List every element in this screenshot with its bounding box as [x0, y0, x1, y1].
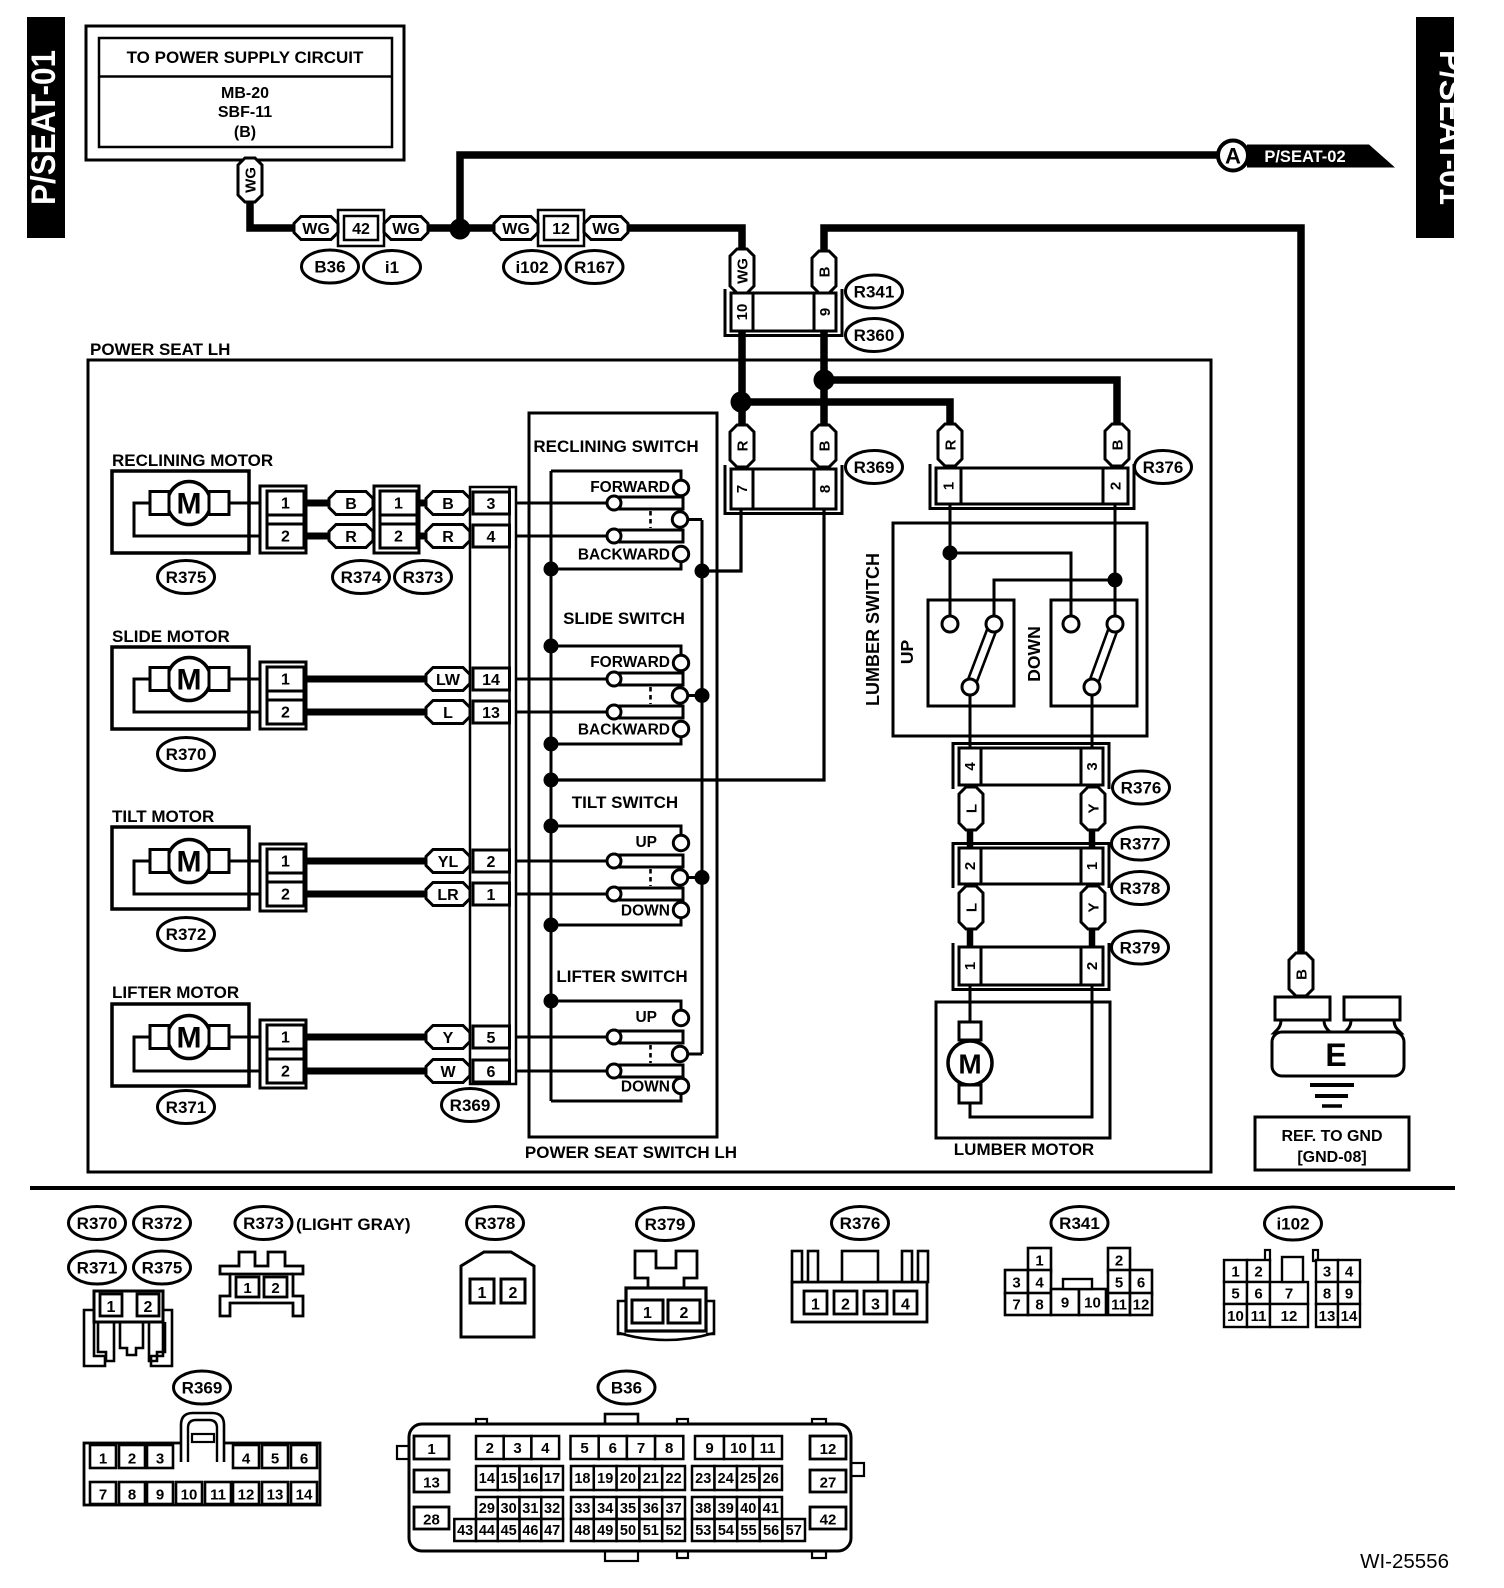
svg-text:M: M — [177, 664, 202, 697]
svg-text:P/SEAT-01: P/SEAT-01 — [1432, 50, 1470, 205]
connector ref R360 — [846, 319, 903, 352]
svg-text:B: B — [345, 496, 357, 513]
svg-text:LIFTER SWITCH: LIFTER SWITCH — [556, 967, 687, 986]
svg-text:R341: R341 — [1059, 1214, 1100, 1233]
node Y label (R377) — [1081, 787, 1105, 830]
wire B motor to R374 — [306, 500, 331, 507]
connector face R376 — [792, 1251, 928, 1322]
svg-text:5: 5 — [271, 1451, 279, 1468]
svg-text:1: 1 — [1231, 1263, 1239, 1280]
svg-text:32: 32 — [544, 1501, 560, 1517]
svg-text:6: 6 — [1254, 1285, 1262, 1302]
svg-text:7: 7 — [99, 1487, 107, 1504]
svg-text:1: 1 — [281, 496, 290, 513]
wire WG segment — [428, 224, 497, 232]
node B label above pin 8 — [812, 425, 836, 467]
svg-text:26: 26 — [763, 1471, 779, 1487]
svg-text:RECLINING SWITCH: RECLINING SWITCH — [533, 437, 698, 456]
svg-text:R167: R167 — [574, 258, 615, 277]
svg-text:14: 14 — [296, 1487, 313, 1504]
svg-text:2: 2 — [281, 705, 290, 722]
lumber switch box — [863, 523, 1147, 736]
connector ref i102 — [504, 251, 561, 284]
svg-text:R369: R369 — [450, 1096, 491, 1115]
svg-text:2: 2 — [281, 887, 290, 904]
svg-text:12: 12 — [820, 1441, 837, 1458]
svg-text:L: L — [963, 804, 980, 813]
connector ref R370 — [158, 738, 215, 771]
svg-text:YL: YL — [438, 854, 459, 871]
svg-text:7: 7 — [1012, 1297, 1020, 1314]
lifter motor R371 — [112, 983, 306, 1088]
svg-text:R360: R360 — [854, 326, 895, 345]
wire stub L — [967, 829, 974, 849]
svg-text:WG: WG — [502, 221, 530, 238]
wire stub Y 2 — [1089, 928, 1096, 948]
svg-text:47: 47 — [544, 1523, 560, 1539]
connector ref R378 — [1112, 872, 1169, 905]
svg-text:8: 8 — [1323, 1285, 1331, 1302]
svg-text:i102: i102 — [515, 258, 548, 277]
svg-text:2: 2 — [487, 854, 496, 871]
node B label above pin 9 — [812, 251, 836, 293]
svg-text:1: 1 — [281, 672, 290, 689]
svg-text:B: B — [1293, 969, 1310, 980]
connector ref i1 — [364, 251, 421, 284]
node L label (R379) — [959, 886, 983, 929]
svg-text:39: 39 — [718, 1501, 734, 1517]
svg-text:M: M — [958, 1049, 981, 1080]
connector R369 switch side strip — [470, 487, 516, 1084]
svg-text:55: 55 — [740, 1523, 756, 1539]
svg-text:M: M — [177, 846, 202, 879]
svg-text:TILT SWITCH: TILT SWITCH — [572, 793, 678, 812]
svg-text:REF. TO GND: REF. TO GND — [1281, 1128, 1382, 1145]
svg-text:12: 12 — [552, 221, 570, 238]
svg-text:2: 2 — [1115, 1253, 1123, 1270]
svg-text:1: 1 — [962, 962, 979, 970]
wire R motor to R374 — [306, 533, 331, 540]
connector face R341 — [1005, 1248, 1152, 1315]
svg-text:49: 49 — [597, 1523, 613, 1539]
svg-text:44: 44 — [479, 1523, 495, 1539]
switch common bus left — [550, 471, 553, 1101]
connector ref B36 — [598, 1371, 655, 1404]
node R label at switch pin 4 — [426, 525, 470, 548]
svg-text:2: 2 — [128, 1451, 136, 1468]
svg-text:38: 38 — [695, 1501, 711, 1517]
connector ref R372 — [158, 918, 215, 951]
svg-text:29: 29 — [479, 1501, 495, 1517]
wire to P/SEAT-02 arrow — [460, 155, 1222, 232]
connector i102-R167 pin 12 inline — [538, 210, 584, 246]
connector face B36 57-pin — [397, 1414, 864, 1561]
svg-text:1: 1 — [1035, 1253, 1043, 1270]
svg-text:B36: B36 — [314, 258, 345, 277]
svg-text:8: 8 — [665, 1440, 673, 1457]
svg-text:5: 5 — [580, 1440, 588, 1457]
svg-text:3: 3 — [1323, 1263, 1331, 1280]
svg-text:36: 36 — [643, 1501, 659, 1517]
svg-text:WG: WG — [392, 221, 420, 238]
svg-text:1: 1 — [941, 482, 958, 490]
connector R379 pins 1/2 — [953, 943, 1109, 990]
svg-text:R376: R376 — [840, 1214, 881, 1233]
svg-text:14: 14 — [1341, 1308, 1358, 1325]
switch common bus right — [701, 520, 704, 1054]
svg-text:R369: R369 — [182, 1379, 223, 1398]
svg-text:1: 1 — [99, 1451, 107, 1468]
svg-text:18: 18 — [574, 1471, 590, 1487]
wire WG to pin 10 — [628, 228, 742, 251]
svg-text:B: B — [816, 266, 833, 277]
svg-text:51: 51 — [643, 1523, 659, 1539]
svg-text:R: R — [345, 529, 357, 546]
svg-text:4: 4 — [962, 762, 979, 771]
reclining switch — [516, 437, 702, 569]
power seat switch LH box — [525, 413, 737, 1162]
svg-text:WG: WG — [302, 221, 330, 238]
svg-text:2: 2 — [509, 1285, 518, 1302]
svg-text:9: 9 — [1061, 1295, 1069, 1312]
svg-text:R377: R377 — [1120, 835, 1161, 854]
svg-text:3: 3 — [1084, 762, 1101, 770]
frame tag P/SEAT-01 left — [25, 17, 65, 238]
svg-text:4: 4 — [487, 529, 496, 546]
node R label R374 — [329, 525, 373, 548]
connector R373 inline — [374, 486, 419, 553]
svg-text:R: R — [734, 440, 751, 451]
svg-text:R: R — [442, 529, 454, 546]
wire stub L 2 — [967, 928, 974, 948]
svg-text:L: L — [963, 903, 980, 912]
node Y label (R379) — [1081, 886, 1105, 929]
svg-text:WG: WG — [592, 221, 620, 238]
svg-text:1: 1 — [643, 1305, 652, 1322]
junction R — [731, 392, 752, 413]
svg-text:40: 40 — [740, 1501, 756, 1517]
connector R377-R378 pins 2/1 — [953, 844, 1109, 889]
connector ref R341 — [1051, 1207, 1108, 1240]
separator line — [30, 1186, 1455, 1190]
lifter switch — [516, 967, 702, 1101]
node B label at switch pin 3 — [426, 492, 470, 515]
svg-text:31: 31 — [522, 1501, 538, 1517]
svg-text:R369: R369 — [854, 458, 895, 477]
svg-text:13: 13 — [267, 1487, 284, 1504]
connector R369 pins 7/8 — [725, 465, 842, 514]
node B label at ground — [1289, 953, 1313, 996]
connector ref R373 — [395, 561, 452, 594]
svg-text:1: 1 — [487, 887, 496, 904]
node L label — [426, 701, 470, 724]
connector ref R376 — [832, 1207, 889, 1240]
svg-text:2: 2 — [281, 1064, 290, 1081]
svg-text:POWER SEAT SWITCH LH: POWER SEAT SWITCH LH — [525, 1143, 737, 1162]
svg-text:R371: R371 — [166, 1098, 207, 1117]
svg-text:4: 4 — [1345, 1263, 1354, 1280]
node WG label left of 12 — [494, 217, 538, 240]
svg-text:41: 41 — [763, 1501, 779, 1517]
svg-text:2: 2 — [144, 1299, 153, 1316]
svg-text:2: 2 — [1108, 482, 1125, 490]
node B label above lumber pin 2 — [1105, 424, 1129, 466]
svg-text:[GND-08]: [GND-08] — [1297, 1149, 1366, 1166]
node WG label right of 12 — [584, 217, 628, 240]
svg-text:P/SEAT-01: P/SEAT-01 — [25, 50, 63, 205]
svg-text:22: 22 — [666, 1471, 682, 1487]
svg-text:14: 14 — [482, 672, 500, 689]
svg-text:1: 1 — [107, 1299, 116, 1316]
wire R R373 to switch — [417, 533, 430, 540]
connector ref R373 — [235, 1207, 292, 1240]
svg-text:9: 9 — [705, 1440, 713, 1457]
svg-text:LR: LR — [437, 887, 459, 904]
svg-text:R378: R378 — [1120, 879, 1161, 898]
svg-text:7: 7 — [734, 485, 751, 493]
wire lumber pin2 to contacts — [994, 504, 1123, 616]
svg-text:MB-20: MB-20 — [221, 85, 269, 102]
connector ref R375 — [134, 1251, 191, 1284]
junction B — [814, 370, 835, 391]
svg-text:(B): (B) — [234, 124, 256, 141]
svg-text:3: 3 — [871, 1297, 880, 1314]
svg-text:3: 3 — [487, 496, 496, 513]
svg-text:5: 5 — [1115, 1275, 1123, 1292]
svg-text:LUMBER MOTOR: LUMBER MOTOR — [954, 1140, 1094, 1159]
svg-text:B: B — [442, 496, 454, 513]
svg-text:42: 42 — [352, 221, 370, 238]
svg-text:BACKWARD: BACKWARD — [578, 547, 670, 564]
svg-text:14: 14 — [479, 1471, 495, 1487]
svg-text:1: 1 — [478, 1285, 487, 1302]
svg-text:7: 7 — [637, 1440, 645, 1457]
connector ref R167 — [566, 251, 623, 284]
connector B36-i1 pin 42 inline — [338, 210, 384, 246]
lumber motor — [936, 985, 1110, 1159]
ref to gnd box — [1255, 1117, 1409, 1170]
svg-text:R370: R370 — [166, 745, 207, 764]
node WG label left of 42 — [294, 217, 338, 240]
svg-text:16: 16 — [522, 1471, 538, 1487]
svg-text:56: 56 — [763, 1523, 779, 1539]
svg-text:20: 20 — [620, 1471, 636, 1487]
svg-text:12: 12 — [1133, 1297, 1150, 1314]
lumber switch UP contact — [897, 600, 1014, 748]
tilt motor R372 — [112, 807, 306, 911]
svg-text:UP: UP — [897, 640, 917, 665]
wire B to ground (top run) — [824, 228, 1301, 956]
wire B branch to R376 pin2 — [824, 380, 1117, 427]
svg-text:UP: UP — [635, 834, 657, 851]
svg-text:8: 8 — [1035, 1297, 1043, 1314]
connector ref R369 strip — [442, 1089, 499, 1122]
svg-text:2: 2 — [486, 1440, 494, 1457]
slide switch — [516, 609, 702, 744]
connector face i102 — [1224, 1250, 1360, 1327]
svg-text:SLIDE SWITCH: SLIDE SWITCH — [563, 609, 685, 628]
svg-text:R379: R379 — [645, 1215, 686, 1234]
svg-text:A: A — [1225, 144, 1241, 169]
node WG label right of 42 — [384, 217, 428, 240]
svg-text:6: 6 — [487, 1064, 496, 1081]
wire pin 7 to right bus — [702, 509, 741, 571]
node B label R374 — [329, 492, 373, 515]
svg-text:13: 13 — [423, 1475, 440, 1492]
svg-text:6: 6 — [609, 1440, 617, 1457]
connector ref i102 — [1265, 1207, 1322, 1240]
svg-text:30: 30 — [501, 1501, 517, 1517]
svg-text:45: 45 — [501, 1523, 517, 1539]
connector ref R376 — [1135, 451, 1192, 484]
connector ref R379 — [1112, 931, 1169, 964]
junction dots right bus — [695, 564, 710, 886]
svg-text:2: 2 — [271, 1280, 279, 1297]
svg-text:19: 19 — [597, 1471, 613, 1487]
node LR label — [426, 883, 470, 906]
svg-text:3: 3 — [156, 1451, 164, 1468]
tilt switch — [516, 793, 702, 925]
svg-text:42: 42 — [820, 1512, 837, 1529]
svg-text:9: 9 — [156, 1487, 164, 1504]
svg-text:W: W — [440, 1064, 456, 1081]
svg-text:SLIDE MOTOR: SLIDE MOTOR — [112, 627, 230, 646]
svg-text:5: 5 — [487, 1030, 496, 1047]
svg-text:10: 10 — [1227, 1308, 1244, 1325]
svg-text:RECLINING MOTOR: RECLINING MOTOR — [112, 451, 273, 470]
svg-text:R376: R376 — [1121, 779, 1162, 798]
svg-text:BACKWARD: BACKWARD — [578, 722, 670, 739]
off-page arrow A P/SEAT-02 — [1218, 141, 1395, 171]
connector face R369 14-pin — [84, 1413, 320, 1505]
connector ref R369 — [174, 1371, 231, 1404]
svg-text:1: 1 — [243, 1280, 251, 1297]
svg-text:46: 46 — [522, 1523, 538, 1539]
svg-text:8: 8 — [128, 1487, 136, 1504]
drawing number WI-25556 — [1360, 1550, 1449, 1573]
svg-text:WG: WG — [734, 258, 751, 284]
wire lumber pin1 to contacts — [943, 504, 1072, 616]
junction dots left bus — [544, 562, 559, 1009]
svg-text:1: 1 — [394, 496, 403, 513]
connector ref R378 — [467, 1207, 524, 1240]
svg-text:DOWN: DOWN — [621, 903, 670, 920]
reclining motor R375 — [112, 451, 306, 553]
node Y label — [426, 1026, 470, 1049]
connector ref B36 — [302, 250, 359, 283]
svg-text:B: B — [1109, 439, 1126, 450]
svg-text:R379: R379 — [1120, 939, 1161, 958]
wire R branch to R376 pin1 — [741, 402, 950, 427]
node R label above pin 7 — [730, 425, 754, 467]
svg-text:R374: R374 — [341, 568, 382, 587]
wire Y lifter motor — [306, 1034, 430, 1041]
junction WG — [450, 219, 471, 240]
connector ref R375 — [158, 561, 215, 594]
svg-text:1: 1 — [281, 854, 290, 871]
node YL label — [426, 850, 470, 873]
connector face R379 — [618, 1251, 714, 1340]
svg-text:B: B — [816, 440, 833, 451]
wire pin 8 to left bus — [551, 509, 824, 780]
svg-text:23: 23 — [695, 1471, 711, 1487]
node WG label — [238, 158, 262, 202]
svg-text:8: 8 — [817, 485, 834, 493]
svg-text:9: 9 — [817, 308, 834, 316]
svg-text:R376: R376 — [1143, 458, 1184, 477]
svg-text:R: R — [942, 439, 959, 450]
svg-text:4: 4 — [901, 1297, 910, 1314]
slide motor R370 — [112, 627, 306, 729]
svg-text:10: 10 — [730, 1440, 747, 1457]
connector ref R370 — [69, 1207, 126, 1240]
svg-text:R373: R373 — [243, 1214, 284, 1233]
svg-text:50: 50 — [620, 1523, 636, 1539]
svg-text:48: 48 — [574, 1523, 590, 1539]
svg-text:25: 25 — [740, 1471, 756, 1487]
svg-text:11: 11 — [210, 1487, 226, 1504]
svg-text:13: 13 — [1319, 1308, 1336, 1325]
svg-text:13: 13 — [482, 705, 500, 722]
svg-text:27: 27 — [820, 1475, 837, 1492]
svg-text:DOWN: DOWN — [621, 1079, 670, 1096]
ground earth symbol — [1310, 1085, 1354, 1106]
node L label (R377) — [959, 787, 983, 830]
svg-text:WI-25556: WI-25556 — [1360, 1550, 1449, 1573]
connector face R378 — [461, 1252, 534, 1337]
svg-text:R372: R372 — [166, 925, 207, 944]
connector R376 pins 4/3 — [953, 744, 1109, 790]
svg-text:M: M — [177, 488, 202, 521]
svg-text:WG: WG — [242, 167, 259, 193]
svg-text:R341: R341 — [854, 283, 895, 302]
svg-text:P/SEAT-02: P/SEAT-02 — [1264, 148, 1345, 166]
svg-text:L: L — [443, 705, 453, 722]
svg-text:UP: UP — [635, 1009, 657, 1026]
svg-text:2: 2 — [281, 529, 290, 546]
svg-text:1: 1 — [1084, 862, 1101, 870]
connector ref R372 — [134, 1207, 191, 1240]
svg-text:POWER SEAT LH: POWER SEAT LH — [90, 340, 230, 359]
svg-text:43: 43 — [457, 1523, 473, 1539]
svg-text:35: 35 — [620, 1501, 636, 1517]
svg-text:1: 1 — [427, 1441, 435, 1458]
svg-text:2: 2 — [680, 1305, 689, 1322]
svg-text:Y: Y — [1085, 902, 1102, 912]
connector R376 pins 1/2 — [930, 464, 1134, 509]
svg-text:12: 12 — [1281, 1308, 1298, 1325]
svg-text:TILT MOTOR: TILT MOTOR — [112, 807, 214, 826]
connector face R370/R371/R372/R375 2-pin — [84, 1291, 172, 1366]
label LIGHT GRAY — [296, 1215, 411, 1234]
svg-text:12: 12 — [238, 1487, 255, 1504]
svg-text:2: 2 — [1254, 1263, 1262, 1280]
connector ref R376 lumber — [1113, 771, 1170, 804]
wire YL tilt motor — [306, 858, 430, 865]
svg-text:1: 1 — [281, 1030, 290, 1047]
svg-text:52: 52 — [666, 1523, 682, 1539]
wire WG from power supply — [250, 197, 297, 228]
svg-text:4: 4 — [1035, 1275, 1044, 1292]
power supply circuit box MB-20 SBF-11 (B) — [86, 26, 404, 160]
wire W lifter motor — [306, 1068, 430, 1075]
svg-text:24: 24 — [718, 1471, 734, 1487]
svg-text:10: 10 — [734, 304, 751, 321]
svg-text:R378: R378 — [475, 1214, 516, 1233]
svg-text:57: 57 — [786, 1523, 802, 1539]
wire B R373 to switch — [417, 500, 430, 507]
svg-text:6: 6 — [300, 1451, 308, 1468]
